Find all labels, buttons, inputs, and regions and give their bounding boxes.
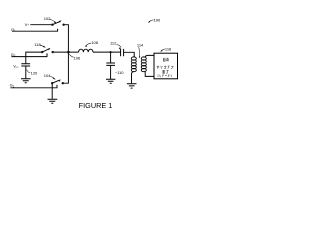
svg-text:116: 116	[165, 47, 172, 52]
svg-text:G2: G2	[11, 52, 16, 58]
svg-text:100: 100	[154, 18, 161, 23]
svg-text:120: 120	[31, 71, 38, 76]
svg-text:G1: G1	[11, 27, 16, 33]
svg-text:V+: V+	[25, 22, 30, 27]
svg-text:~110: ~110	[115, 70, 124, 75]
svg-text:G2: G2	[10, 83, 15, 89]
svg-text:114: 114	[137, 43, 144, 48]
svg-text:VDC: VDC	[13, 64, 19, 69]
svg-text:102: 102	[44, 16, 51, 21]
svg-text:112: 112	[110, 41, 117, 46]
svg-text:118: 118	[34, 42, 41, 47]
svg-text:FIGURE 1: FIGURE 1	[79, 101, 113, 110]
svg-text:106: 106	[74, 55, 81, 60]
svg-text:108: 108	[91, 40, 98, 45]
svg-text:104: 104	[44, 73, 51, 78]
